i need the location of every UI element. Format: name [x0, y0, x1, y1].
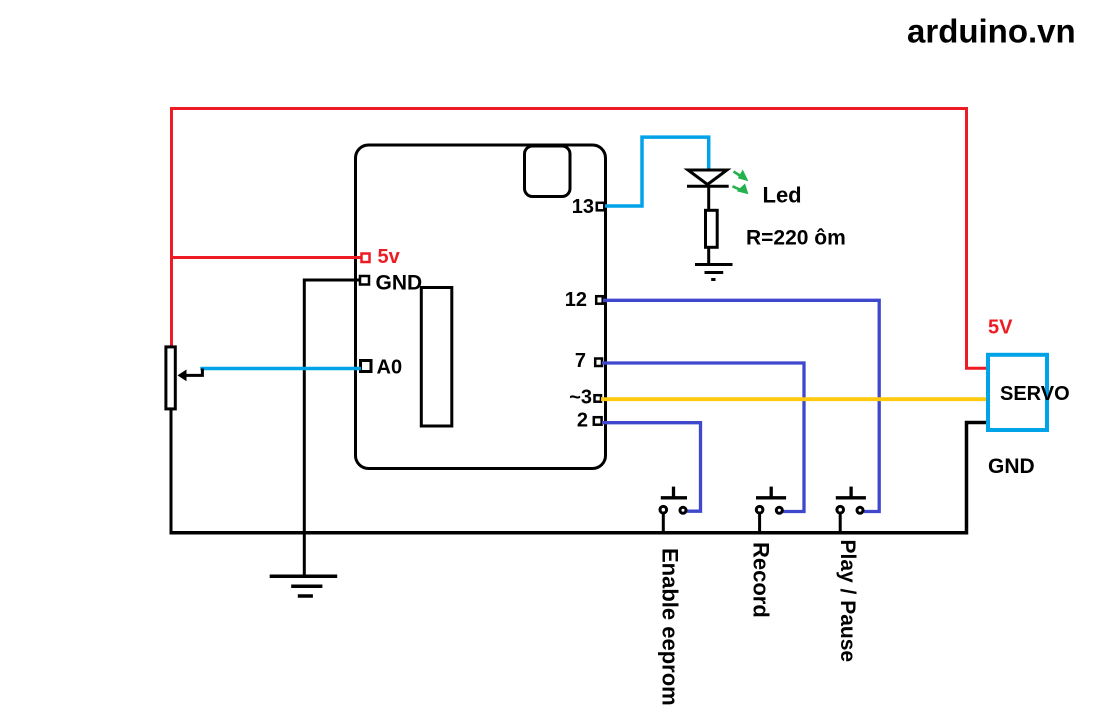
- resistor R 220 ohm: [706, 210, 718, 247]
- pin GND square: [360, 276, 369, 285]
- component outline inside board: [421, 288, 452, 427]
- svg-text:5V: 5V: [988, 317, 1013, 339]
- arduino board U1 body: [356, 145, 606, 469]
- wire +5V red net top loop to servo: [172, 109, 987, 369]
- svg-text:A0: A0: [377, 357, 403, 379]
- svg-text:~3: ~3: [569, 387, 592, 409]
- svg-text:12: 12: [565, 289, 587, 311]
- svg-text:Led: Led: [763, 182, 802, 207]
- wire pin2 to Enable button blue: [602, 423, 701, 512]
- pin 5v square: [362, 254, 370, 263]
- wire red branch to 5v pin: [172, 256, 362, 259]
- svg-text:arduino.vn: arduino.vn: [907, 13, 1076, 50]
- ground symbol main: [270, 576, 338, 596]
- wire pin7 to Record button blue: [602, 363, 804, 512]
- svg-text:GND: GND: [988, 455, 1035, 478]
- svg-text:GND: GND: [376, 271, 423, 294]
- pin 7 square: [595, 359, 602, 367]
- svg-text:Record: Record: [749, 542, 774, 618]
- pin 2 square: [594, 417, 602, 425]
- pin 12 square: [596, 296, 603, 304]
- svg-text:2: 2: [577, 410, 588, 432]
- led D1: [687, 170, 729, 210]
- svg-text:7: 7: [575, 350, 586, 372]
- svg-text:13: 13: [572, 196, 594, 218]
- ground symbol led: [695, 265, 733, 280]
- svg-text:Play / Pause: Play / Pause: [836, 540, 859, 663]
- led light arrows green: [733, 171, 748, 194]
- pin 13 square: [597, 203, 605, 211]
- wire pin13 to LED cyan: [605, 137, 709, 206]
- pin A0 square: [361, 361, 372, 372]
- pushbutton SW3 Play/Pause: [836, 487, 866, 532]
- servo M1 box: [988, 355, 1047, 430]
- pushbutton SW2 Record: [756, 487, 786, 532]
- pushbutton SW1 Enable eeprom: [660, 487, 687, 532]
- usb connector: [525, 146, 571, 197]
- svg-text:5v: 5v: [378, 246, 401, 268]
- wire ground net bottom bus: [170, 409, 173, 531]
- svg-text:Enable eeprom: Enable eeprom: [658, 548, 683, 706]
- potentiometer wiper arrow: [178, 369, 203, 382]
- wire resistor to ground: [707, 248, 710, 265]
- wire GND pin to ground: [304, 280, 361, 576]
- wire A0 to potentiometer wiper cyan: [200, 367, 361, 371]
- wire pin12 to Play/Pause button blue: [603, 300, 879, 511]
- svg-text:SERVO: SERVO: [1000, 383, 1070, 405]
- svg-text:R=220 ôm: R=220 ôm: [746, 227, 846, 250]
- pin ~3 square: [595, 395, 602, 402]
- wire pin3 to servo signal yellow: [601, 397, 988, 401]
- potentiometer body: [166, 347, 175, 409]
